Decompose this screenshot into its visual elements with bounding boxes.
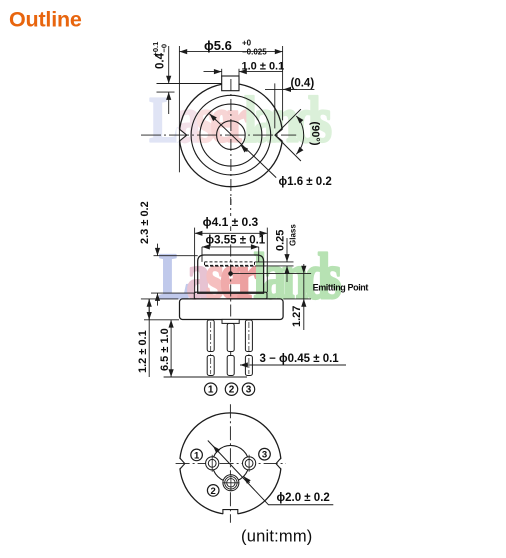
watermark "Laserlands" (middle) [159, 241, 342, 313]
dimension φ3.55 line [202, 246, 259, 248]
side view cap body [198, 255, 264, 293]
dimension (0.4) leader line [265, 88, 314, 90]
dimension 1.0 line left [204, 71, 222, 73]
side view header disc [180, 299, 284, 320]
bottom view horizontal centerline [176, 463, 286, 465]
dimension φ5.6 extension line right [282, 46, 284, 120]
svg-text:3: 3 [246, 385, 252, 396]
pin end extension line [164, 376, 247, 378]
svg-text:ϕ2.0 ± 0.2: ϕ2.0 ± 0.2 [277, 492, 330, 504]
90° upper angle line [275, 109, 301, 135]
dimension 1.27 line/arrows [303, 264, 305, 274]
bottom view diagonal arrow (lower) [244, 476, 250, 483]
dimension (0.4) arrow [283, 88, 297, 90]
svg-text:Emitting Point: Emitting Point [313, 283, 369, 293]
svg-text:2: 2 [229, 385, 235, 396]
bottom view right V-notch [276, 457, 284, 471]
bottom view pin 1 rings [206, 457, 219, 470]
disc top left extension line [141, 298, 179, 300]
svg-text:1: 1 [194, 450, 200, 461]
top view outer flange circle [179, 84, 282, 187]
side view pin 1 upper segment [207, 320, 214, 352]
side view pin 3 lower segment [245, 356, 252, 376]
glass bottom extension line [255, 265, 294, 267]
dimension 1.2 line [148, 299, 150, 377]
pin 3 centerline [248, 322, 250, 374]
watermark "Laserlands" (top) [149, 84, 332, 156]
top view diagonal arrow (lower, at aperture circle) [241, 145, 248, 152]
side view pin number 1 [205, 383, 217, 395]
glass top extension line [255, 261, 294, 263]
svg-text:3 − ϕ0.45 ± 0.1: 3 − ϕ0.45 ± 0.1 [260, 353, 340, 365]
top view index tab extension lines [221, 69, 223, 77]
emitting point leader line [233, 273, 312, 275]
side view pin 3 upper segment [245, 320, 252, 352]
dimension 3−φ0.45 leader [240, 364, 346, 366]
dimension 0.4 extension line upper [157, 83, 222, 85]
top view cap circle [191, 95, 271, 175]
side view centerline [230, 197, 232, 216]
cap top extension line [154, 255, 198, 257]
bottom view pin number 1 [191, 449, 203, 461]
svg-text:(90°): (90°) [309, 122, 321, 146]
pin 1 centerline [210, 322, 212, 374]
side view pin number 2 [225, 383, 237, 395]
svg-text:(0.4): (0.4) [291, 78, 315, 90]
svg-text:+0: +0 [242, 39, 252, 48]
disc top right extension line [283, 298, 311, 300]
dimension 0.4 arrow upper [168, 46, 170, 84]
side view pin 1 lower segment [207, 356, 214, 376]
brim top extension line [151, 292, 194, 294]
side view pin 2 upper segment [227, 323, 234, 351]
svg-text:Glass: Glass [289, 224, 298, 246]
side view pin 2 lower segment [227, 356, 234, 376]
bottom view pin number 3 [259, 448, 271, 460]
svg-text:ϕ4.1 ± 0.3: ϕ4.1 ± 0.3 [203, 215, 259, 229]
svg-text:s: s [314, 84, 333, 156]
svg-text:−0: −0 [160, 44, 169, 53]
top view right V-notch [275, 128, 285, 143]
dimension φ5.6 line [179, 51, 282, 53]
bottom view pin 3 rings [243, 457, 256, 470]
dimension φ5.6 extension line left [178, 46, 180, 172]
dimension 1.0 line right [239, 71, 283, 73]
bottom view pin circle (pedestal) [212, 445, 248, 481]
top view left V-notch [177, 128, 187, 143]
top view vertical centerline [230, 79, 232, 205]
bottom view index notch [223, 510, 238, 518]
svg-text:0.25: 0.25 [275, 230, 287, 251]
side view pin number 3 [242, 383, 254, 395]
dimension 0.4 arrow lower [168, 92, 170, 114]
90° dimension arc [296, 116, 303, 154]
bottom view outer circle [180, 413, 281, 514]
svg-text:−0.025: −0.025 [242, 48, 267, 57]
side view glass window (dashed) [205, 262, 255, 266]
svg-text:3: 3 [262, 450, 267, 461]
dimension 2.3 arrows [157, 244, 159, 256]
side view pin 2 weld stub [222, 319, 239, 323]
dimension 0.4 extension line lower [157, 91, 175, 93]
side view cap brim [194, 292, 267, 299]
disc bottom left extension line [144, 319, 179, 321]
top view inner ring circle [200, 104, 262, 166]
bottom view left V-notch [177, 457, 185, 471]
dimension φ4.1 line [195, 232, 268, 234]
svg-text:6.5 ± 1.0: 6.5 ± 1.0 [159, 328, 171, 371]
svg-text:ϕ3.55 ± 0.1: ϕ3.55 ± 0.1 [206, 235, 266, 247]
top view horizontal centerline [141, 134, 296, 136]
svg-text:2.3 ± 0.2: 2.3 ± 0.2 [139, 201, 151, 244]
svg-text:1.0 ± 0.1: 1.0 ± 0.1 [242, 61, 285, 73]
dimension φ3.55 extension lines [201, 247, 203, 262]
svg-text:1: 1 [208, 385, 214, 396]
bottom view vertical centerline [229, 404, 231, 522]
top view diagonal leader line [210, 114, 277, 178]
dimension (0.4) notch tip extension [274, 83, 276, 128]
bottom view pin number 2 [207, 485, 219, 497]
emitting point dot [228, 271, 233, 276]
dimension 0.25 arrows [286, 238, 288, 262]
svg-text:ϕ5.6: ϕ5.6 [204, 38, 232, 53]
svg-text:1.2 ± 0.1: 1.2 ± 0.1 [137, 330, 149, 373]
top view index tab [222, 76, 239, 91]
bottom view diagonal leader [208, 441, 333, 505]
dimension φ4.1 extension lines [194, 228, 196, 293]
svg-text:2: 2 [211, 486, 216, 497]
svg-text:(unit:mm): (unit:mm) [241, 528, 312, 546]
svg-text:s: s [323, 241, 342, 313]
svg-text:1.27: 1.27 [291, 306, 303, 327]
top view diagonal arrow (upper) [210, 114, 217, 121]
side view body white underlay [198, 255, 264, 293]
bottom view pin 2 rings [223, 475, 239, 491]
bottom view diagonal arrow (upper) [213, 446, 219, 453]
svg-text:ϕ1.6 ± 0.2: ϕ1.6 ± 0.2 [279, 176, 332, 188]
svg-text:Outline: Outline [9, 8, 82, 32]
90° lower angle line [275, 135, 301, 161]
dimension 6.5 line [170, 320, 172, 348]
top view center aperture circle [217, 121, 246, 150]
